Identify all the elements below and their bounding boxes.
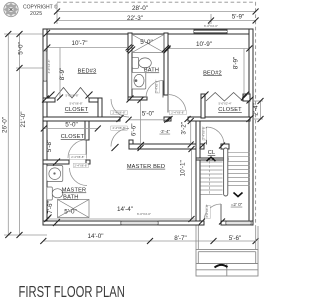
interior walls	[43, 33, 250, 221]
svg-text:28'-0": 28'-0"	[132, 5, 148, 12]
wall hatch bath bottom wall corner	[127, 96, 134, 103]
bath left wall	[128, 33, 132, 100]
entry door arc	[204, 204, 221, 221]
window bed#3 left wall	[43, 51, 47, 81]
wall y145 master bed north	[129, 144, 200, 149]
svg-text:5'-0": 5'-0"	[64, 208, 77, 215]
vestibule door leaf	[206, 127, 208, 145]
wall hatch top-left corner	[44, 30, 51, 37]
top wall	[43, 29, 253, 34]
svg-text:2'-4"X6'-8": 2'-4"X6'-8"	[71, 155, 84, 159]
bottom wall left segment	[43, 221, 204, 225]
master bath entry door label	[74, 163, 89, 167]
copyright logo	[4, 2, 18, 16]
svg-text:8'-7": 8'-7"	[174, 235, 187, 242]
svg-text:14'-4": 14'-4"	[117, 206, 133, 213]
svg-text:7'-6": 7'-6"	[47, 201, 54, 214]
master closet door leaf	[85, 140, 87, 158]
dim line 8'-9" bed#3	[59, 48, 61, 98]
svg-text:10'-9": 10'-9"	[196, 41, 212, 48]
wall hatch left wall closet junction	[42, 96, 49, 103]
svg-text:5'-0"X6'-8": 5'-0"X6'-8"	[65, 94, 78, 98]
wall hatch bottom-left corner	[45, 215, 52, 222]
dim line 8'-9" bed#2	[243, 49, 245, 98]
svg-text:COPYRIGHT ©: COPYRIGHT ©	[23, 3, 58, 10]
dim line 5'-0" hall	[129, 119, 168, 121]
bed#2 closet bottom wall right piece	[188, 117, 250, 121]
svg-text:BED#3: BED#3	[78, 68, 97, 74]
svg-text:5'-0": 5'-0"	[65, 122, 78, 129]
wall hatch bed2 door jambs	[167, 116, 173, 122]
hall double doors: label box lower	[111, 126, 127, 130]
vestibule bottom wall left stub	[200, 144, 204, 149]
master bath entry door arc	[70, 168, 88, 186]
bath door arc	[146, 81, 163, 98]
svg-text:10'-7": 10'-7"	[71, 40, 87, 47]
dim line 6'-6"	[140, 100, 142, 148]
window master bed bottom wall	[121, 221, 158, 225]
wall hatch bed2 bifold ends	[202, 92, 209, 99]
master bath sink vanity	[47, 166, 63, 182]
CL bifold caret	[207, 157, 216, 161]
ticks 5'-0" hall line	[126, 117, 132, 123]
master closet door arc	[68, 140, 86, 158]
bath bottom wall	[128, 97, 147, 100]
dim line 2'-4" right	[253, 101, 263, 119]
hall upper door arc	[111, 99, 129, 117]
svg-text:26'-0": 26'-0"	[2, 117, 9, 133]
svg-text:8'-9": 8'-9"	[233, 57, 240, 70]
vestibule door arc	[207, 127, 225, 145]
master closet right wall	[85, 121, 89, 140]
stair rail	[224, 148, 228, 196]
bath right wall	[164, 33, 168, 95]
master bed right wall	[196, 117, 200, 221]
svg-text:6'-0"X4'-0": 6'-0"X4'-0"	[204, 24, 218, 28]
dim line 3'-2"	[190, 121, 192, 145]
svg-text:2025: 2025	[30, 11, 42, 17]
dimension line 28'-0" top	[57, 3, 256, 24]
master bath top wall	[43, 160, 69, 164]
svg-text:6'-0"X4'-0": 6'-0"X4'-0"	[137, 212, 151, 216]
ticks 8'-9" bed2	[241, 95, 247, 101]
ticks 2'-4" right	[258, 98, 264, 104]
svg-text:10'-1": 10'-1"	[180, 160, 187, 176]
window bed#2 top wall	[194, 30, 227, 33]
svg-text:BED#2: BED#2	[203, 70, 222, 76]
ticks 10'-7" line	[44, 45, 50, 51]
vestibule door label rotated	[202, 126, 207, 140]
wall hatch hall wall end	[117, 115, 124, 122]
stairs left flight treads	[200, 162, 222, 195]
vestibule bottom wall right stub	[221, 144, 229, 149]
wall hatch master bed north wall	[138, 142, 145, 149]
ticks 10'-9" line	[165, 46, 171, 52]
ticks 6'-6"	[138, 97, 144, 103]
svg-text:4'-0"X4'-6": 4'-0"X4'-6"	[47, 60, 51, 74]
svg-text:2'-4": 2'-4"	[253, 103, 260, 116]
wall hatch right wall closet	[247, 97, 254, 104]
svg-text:21'-0": 21'-0"	[20, 111, 27, 127]
porch caret	[215, 265, 228, 268]
right wall	[249, 29, 253, 225]
ticks 14'-4"	[44, 216, 50, 222]
svg-text:2'-4"X6'-8": 2'-4"X6'-8"	[202, 126, 206, 139]
svg-text:MASTER BED: MASTER BED	[127, 164, 165, 170]
ticks 8'-9" bed3	[57, 95, 63, 101]
wall hatch bath right	[162, 45, 169, 52]
bed#2 door label	[169, 110, 186, 114]
svg-text:2'-4"X6'-8": 2'-4"X6'-8"	[171, 111, 184, 115]
svg-text:2'-8"X6'-8": 2'-8"X6'-8"	[205, 204, 209, 217]
ticks 3'-2"	[188, 118, 194, 124]
wall y145 jog	[129, 140, 133, 149]
bed#3 closet top wall left stub	[43, 98, 55, 102]
stairs dashed up line	[209, 161, 211, 195]
dim line 10'-1"	[191, 149, 193, 219]
svg-text:5'-0": 5'-0"	[18, 42, 25, 55]
svg-text:BATH: BATH	[144, 68, 159, 74]
svg-text:CL: CL	[208, 150, 216, 156]
ticks top dim lines	[54, 9, 259, 24]
bath toilet	[132, 57, 151, 68]
master bath tub X box	[58, 200, 90, 218]
svg-text:5'-0"X6'-8": 5'-0"X6'-8"	[69, 102, 82, 106]
bath door leaf	[162, 81, 164, 98]
left wall	[43, 29, 47, 225]
svg-text:=2' 0": =2' 0"	[231, 202, 243, 207]
svg-text:5'-0": 5'-0"	[142, 110, 155, 117]
svg-text:2'-4"X6'-8": 2'-4"X6'-8"	[155, 80, 159, 93]
bath tub X box	[132, 35, 164, 53]
entry door leaf	[220, 204, 222, 221]
stairs right flight treads	[228, 162, 250, 186]
tick marks interior dims	[41, 30, 264, 226]
svg-text:8'-9": 8'-9"	[59, 68, 66, 81]
bed#2 closet left wall	[201, 94, 205, 118]
wall hatch master bath top	[53, 159, 60, 166]
dim line 10'-7"	[47, 47, 128, 49]
master bath toilet	[47, 187, 63, 200]
svg-text:5'-6": 5'-6"	[229, 235, 242, 242]
svg-text:6'-6": 6'-6"	[130, 124, 137, 137]
svg-text:·3'-4": ·3'-4"	[159, 129, 170, 134]
entry door label	[205, 204, 210, 218]
master bath top wall stub	[86, 160, 90, 164]
svg-text:CLOSET: CLOSET	[61, 134, 85, 140]
svg-text:22'-3": 22'-3"	[127, 15, 143, 22]
roof overhang dashed outline	[57, 2, 256, 226]
svg-text:5'-9": 5'-9"	[232, 13, 245, 20]
svg-text:FIRST FLOOR PLAN: FIRST FLOOR PLAN	[19, 283, 125, 300]
ticks left dim lines	[5, 31, 22, 238]
bed#2 door leaf	[167, 95, 169, 113]
porch side connector lines	[196, 226, 258, 250]
bed#2 bifold closet doors	[206, 93, 243, 102]
svg-text:MASTER: MASTER	[62, 188, 87, 194]
ticks 5'-0" closet line	[41, 126, 47, 132]
left dimension lines 26'-0" / 5'-0" / 21'-0"	[4, 34, 47, 235]
bed#2 closet bottom wall left piece	[164, 117, 171, 121]
stair landing edge lines	[228, 152, 250, 156]
svg-text:3'-2": 3'-2"	[181, 122, 188, 135]
master closet door label	[69, 155, 86, 160]
svg-text:2'-4"X6'-8": 2'-4"X6'-8"	[74, 164, 87, 168]
bath door label rotated	[155, 80, 160, 93]
ticks 10'-1"	[189, 146, 195, 152]
hall lower door arc	[111, 129, 129, 147]
window bottom wall stair hall	[226, 221, 251, 225]
wall hatch bed3 bifold ends	[48, 92, 55, 99]
svg-text:5'-0"X2'-4": 5'-0"X2'-4"	[218, 102, 231, 106]
hall double doors: label box upper	[111, 111, 127, 115]
dim line 10'-9"	[168, 48, 250, 50]
dim line 14'-4"	[47, 218, 196, 220]
wall hatch bath left	[127, 45, 134, 52]
svg-text:5'-0": 5'-0"	[140, 39, 153, 46]
closet/hall vertical wall	[98, 98, 102, 118]
wall hatch entry door jambs	[199, 219, 205, 225]
stair down caret	[234, 193, 243, 197]
svg-text:5'-8": 5'-8"	[46, 140, 53, 153]
bed#2 closet bifold right stub	[243, 94, 250, 101]
dim line 5'-0" closet	[43, 128, 98, 130]
wall hatch vestibule door jambs	[200, 143, 206, 149]
svg-text:14'-0": 14'-0"	[87, 233, 103, 240]
exterior walls	[43, 29, 253, 225]
bath sink vanity	[132, 72, 146, 89]
svg-text:CLOSET: CLOSET	[218, 107, 242, 113]
porch slab	[196, 250, 258, 277]
bottom dimension line 14'-0" 8'-7" 5'-6"	[43, 240, 255, 242]
bottom wall right segment	[221, 221, 253, 225]
svg-text:CLOSET: CLOSET	[65, 107, 89, 113]
bed#3 closet top wall right stub	[89, 98, 102, 102]
CL closet floor wall	[196, 158, 228, 160]
bed#2 door arc	[168, 95, 186, 113]
bed#3 bifold closet doors	[55, 88, 89, 99]
hall wall y118	[43, 117, 120, 121]
